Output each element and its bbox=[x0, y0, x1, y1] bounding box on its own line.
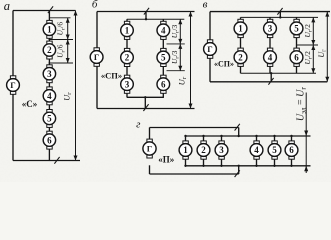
svg-text:6: 6 bbox=[161, 79, 166, 89]
svg-text:3: 3 bbox=[268, 24, 273, 34]
svg-text:4: 4 bbox=[268, 52, 273, 62]
svg-text:Г: Г bbox=[10, 80, 15, 90]
svg-text:2: 2 bbox=[238, 52, 243, 62]
svg-text:6: 6 bbox=[47, 135, 52, 145]
svg-text:5: 5 bbox=[161, 53, 166, 63]
svg-text:1: 1 bbox=[125, 26, 130, 36]
svg-text:3: 3 bbox=[47, 69, 52, 79]
svg-text:а: а bbox=[4, 0, 10, 13]
svg-text:6: 6 bbox=[294, 52, 299, 62]
svg-text:2: 2 bbox=[201, 145, 206, 155]
svg-text:«П»: «П» bbox=[158, 155, 175, 165]
svg-text:4: 4 bbox=[47, 91, 52, 101]
svg-text:3: 3 bbox=[219, 145, 224, 155]
svg-text:Uэл = Uг: Uэл = Uг bbox=[296, 87, 308, 121]
svg-text:«С»: «С» bbox=[22, 99, 38, 109]
svg-text:2: 2 bbox=[125, 53, 130, 63]
svg-text:5: 5 bbox=[272, 145, 277, 155]
svg-text:5: 5 bbox=[294, 24, 299, 34]
svg-text:1: 1 bbox=[238, 24, 243, 34]
svg-text:4: 4 bbox=[254, 145, 259, 155]
svg-text:6: 6 bbox=[289, 145, 294, 155]
svg-text:3: 3 bbox=[125, 79, 130, 89]
svg-text:б: б bbox=[92, 0, 98, 11]
svg-text:в: в bbox=[203, 0, 208, 10]
svg-text:4: 4 bbox=[161, 26, 166, 36]
svg-text:2: 2 bbox=[47, 45, 52, 55]
svg-text:«СП»: «СП» bbox=[101, 71, 122, 81]
svg-text:Г: Г bbox=[207, 44, 212, 54]
svg-text:1: 1 bbox=[183, 145, 188, 155]
svg-text:г: г bbox=[136, 119, 141, 131]
svg-text:Г: Г bbox=[94, 52, 99, 62]
svg-text:5: 5 bbox=[47, 114, 52, 124]
svg-text:Г: Г bbox=[147, 144, 152, 154]
svg-text:«СП»: «СП» bbox=[214, 60, 234, 69]
svg-text:1: 1 bbox=[47, 25, 52, 35]
